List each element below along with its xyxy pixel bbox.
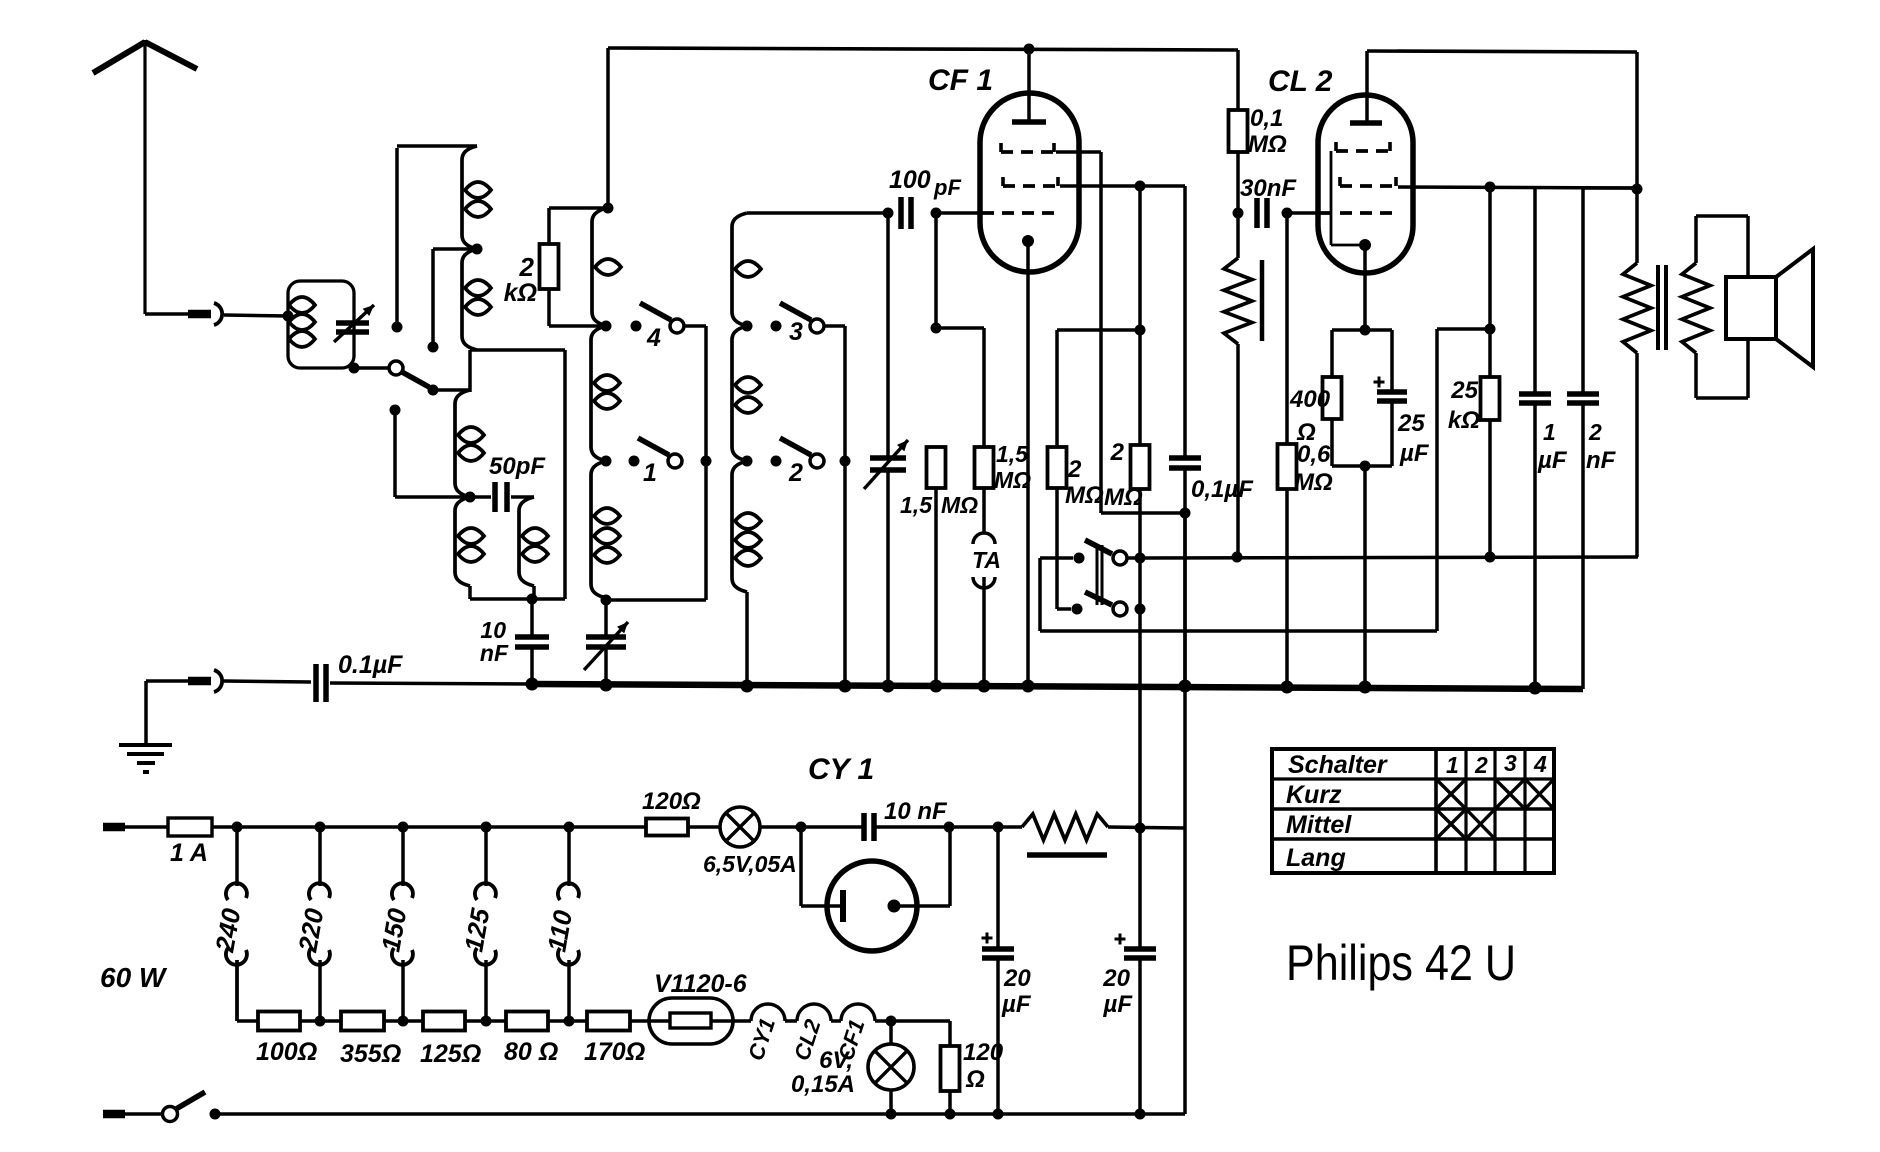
label 0.1 MOhm: [1248, 105, 1287, 158]
table header 3: [1504, 750, 1517, 776]
label CY1: [808, 753, 874, 786]
table header 1: [1446, 752, 1459, 778]
node cathode net bottom: [1360, 461, 1371, 472]
label 3: [789, 318, 803, 346]
node switch2 left: [742, 456, 753, 467]
svg-text:CY 1: CY 1: [808, 753, 874, 786]
svg-text:Mittel: Mittel: [1286, 811, 1352, 839]
RF coil L5: [519, 497, 548, 599]
jack TA lower: [973, 577, 995, 588]
variable capacitor tuning gang: [864, 440, 908, 489]
wire 2M A to DPDT: [1057, 488, 1071, 609]
resistor 170 Ohm: [587, 1012, 630, 1031]
wire 25k column top: [1488, 187, 1492, 377]
node bus 606: [600, 679, 613, 692]
capacitor 2nF: [1567, 394, 1599, 403]
capacitor 20uF no1: [982, 827, 1015, 1114]
rectifier CY1 envelope: [827, 861, 917, 951]
switch 4 contact circle: [670, 319, 684, 333]
node 608/208: [603, 203, 614, 214]
svg-text:80 Ω: 80 Ω: [504, 1038, 558, 1066]
node DPDT lower right: [1135, 604, 1146, 615]
connector ground plug: [188, 670, 222, 692]
wire CL2 g2 internal link: [1331, 151, 1359, 245]
switch S5 blade: [402, 372, 429, 387]
wire 1.5M column: [934, 213, 938, 328]
label 120 Ohm (mains): [642, 788, 701, 815]
node 20uF-1 top: [993, 822, 1004, 833]
wire secondary top: [1696, 216, 1748, 277]
svg-text:nF: nF: [480, 640, 509, 666]
svg-text:MΩ: MΩ: [1104, 484, 1143, 511]
node bus 532: [526, 678, 539, 691]
resistor 120 Ohm (mains): [646, 819, 688, 836]
svg-text:355Ω: 355Ω: [340, 1040, 401, 1068]
wire osc top: [747, 211, 888, 215]
svg-text:120: 120: [963, 1039, 1004, 1066]
node bus 1028: [1022, 680, 1035, 693]
switch 2 blade: [780, 438, 811, 455]
jack TA upper: [973, 533, 995, 544]
tube CF1 control grid: [982, 211, 1062, 215]
heater CL2 winding: [797, 1004, 831, 1021]
table header 2: [1474, 752, 1488, 778]
label 170 Ohm: [584, 1038, 645, 1066]
tube CF1 cathode: [1022, 235, 1034, 686]
capacitor 25uF plus: [1374, 377, 1385, 388]
wire gang cap to bus: [886, 469, 890, 686]
label 0.1uF (g2): [1191, 476, 1254, 503]
tube CF1 envelope: [980, 93, 1079, 272]
node tap 125: [481, 822, 492, 833]
capacitor 0.1uF (g2): [1169, 458, 1201, 468]
svg-text:3: 3: [1504, 750, 1517, 776]
wire row3: [465, 1019, 506, 1023]
wire gang cap lead: [886, 213, 890, 458]
node bus 984: [978, 680, 991, 693]
svg-text:1,5: 1,5: [996, 441, 1029, 467]
trimmer capacitor padder: [584, 622, 628, 670]
wire rect bottom: [606, 598, 706, 602]
node 1140/330: [1135, 325, 1146, 336]
label 1A: [170, 839, 208, 867]
resistor 400 Ohm: [1323, 377, 1342, 419]
node heater end: [886, 1016, 897, 1027]
node switch2 right: [840, 456, 851, 467]
svg-text:2: 2: [519, 252, 535, 282]
wire mains to fuse: [125, 825, 168, 829]
node 1237/557: [1232, 552, 1243, 563]
wire CF1 g3 lead: [1060, 186, 1185, 458]
label 50pF: [489, 453, 546, 480]
wire 2nF to bus end: [1581, 403, 1585, 689]
node tap 220: [315, 822, 326, 833]
node row 403: [398, 1016, 409, 1027]
svg-text:125Ω: 125Ω: [420, 1040, 481, 1068]
table row Kurz: [1286, 781, 1342, 809]
label 400 Ohm: [1289, 386, 1331, 446]
label 355 Ohm: [340, 1040, 401, 1068]
svg-text:1 A: 1 A: [170, 839, 208, 867]
terminal mains L: [103, 823, 125, 832]
wire cathode net top: [1332, 330, 1392, 392]
wire 0.1uF to bus: [1183, 468, 1187, 686]
resistor 0.6 MOhm: [1278, 444, 1297, 489]
label 0.6 MOhm: [1294, 441, 1333, 496]
node L3 bottom / 50pF left: [465, 492, 476, 503]
node bus 936: [930, 680, 943, 693]
wire 0.1M to 30nF node: [1236, 152, 1240, 213]
wire barretter to HT column: [1108, 827, 1185, 828]
svg-text:MΩ: MΩ: [1248, 131, 1287, 158]
label 2nF: [1586, 419, 1617, 474]
wire h2: [831, 1019, 841, 1023]
resistor 1.5 MOhm (AVC): [927, 447, 946, 488]
wire to TA jack: [982, 488, 986, 533]
contact S5 lower: [390, 405, 467, 498]
wire mains line: [212, 825, 646, 829]
svg-text:µF: µF: [1103, 991, 1134, 1018]
node antenna coil input: [283, 311, 294, 322]
node 513: [1180, 508, 1191, 519]
wire to heaters: [733, 1019, 751, 1023]
table X Kurz-1: [1436, 779, 1466, 809]
resistor 80 Ohm: [506, 1012, 548, 1031]
label 2 kOhm: [504, 252, 537, 307]
wire frame top left: [397, 144, 477, 148]
capacitor 30nF: [1257, 198, 1267, 228]
wire 1uF to bus: [1533, 403, 1537, 688]
svg-text:30nF: 30nF: [1240, 175, 1297, 202]
label 30nF: [1240, 175, 1297, 202]
connector antenna plug: [188, 303, 222, 325]
switch mains pivot: [163, 1107, 178, 1122]
barretter resistor: [1022, 814, 1108, 855]
svg-text:Ω: Ω: [965, 1066, 985, 1093]
title Philips 42 U: [1286, 935, 1516, 991]
svg-text:2: 2: [1474, 752, 1488, 778]
wire 50pF link: [470, 495, 534, 499]
wire HT column: [1183, 513, 1187, 1114]
label 10nF (rect): [884, 798, 948, 825]
rectifier CY1 anode: [888, 827, 951, 913]
resistor 2 kOhm: [540, 244, 559, 289]
oscillator coil L6: [592, 208, 621, 326]
svg-text:MΩ: MΩ: [1294, 469, 1333, 496]
resistor 125 Ohm: [423, 1012, 465, 1031]
fuse 1A: [168, 818, 212, 836]
RF coil L4: [455, 497, 484, 599]
resistor 1.5 MOhm (grid): [975, 447, 994, 488]
svg-text:0,15A: 0,15A: [791, 1071, 855, 1098]
node DPDT upper right: [1135, 553, 1146, 564]
wire antenna lead: [145, 312, 188, 316]
label 25 kOhm: [1448, 377, 1480, 434]
label 60W: [100, 962, 168, 993]
terminal mains N: [103, 1110, 125, 1119]
node 100pF right: [931, 208, 942, 219]
ground symbol: [119, 681, 172, 772]
label heater CY1: [743, 1015, 780, 1063]
node tap 150: [398, 822, 409, 833]
node tap 240: [232, 822, 243, 833]
svg-text:6,5V,05A: 6,5V,05A: [703, 851, 797, 877]
wire CF1 g2 lead: [1056, 152, 1185, 513]
label 2 (switch): [788, 459, 803, 487]
label 120 Ohm (shunt): [963, 1039, 1004, 1093]
label 0.1uF input: [338, 651, 403, 679]
capacitor 25uF: [1377, 392, 1407, 401]
svg-text:2: 2: [1067, 456, 1082, 483]
svg-text:100: 100: [889, 166, 931, 194]
switch 3 blade: [780, 303, 811, 320]
wire 1uF branch: [1533, 187, 1537, 394]
node row 569: [564, 1016, 575, 1027]
wire bottom line: [215, 1112, 1185, 1116]
svg-text:60 W: 60 W: [100, 962, 168, 993]
svg-text:TA: TA: [972, 547, 1001, 573]
switch DPDT link: [1097, 545, 1102, 605]
svg-text:4: 4: [1533, 751, 1547, 777]
node L2 tap: [472, 244, 483, 255]
svg-text:1,5: 1,5: [900, 492, 933, 518]
svg-text:0,1µF: 0,1µF: [1191, 476, 1254, 503]
label lamp 6V: [791, 1047, 855, 1098]
wire 10nF to bus: [530, 647, 534, 685]
oscillator coil L7: [591, 326, 620, 461]
svg-text:CF 1: CF 1: [928, 64, 993, 97]
wire 10nF lead: [530, 599, 534, 637]
switch 2 contact circle: [810, 454, 824, 468]
wire 2nF branch: [1583, 188, 1634, 394]
contact switch3: [771, 321, 782, 332]
wire row4: [548, 1019, 587, 1023]
wire row2: [384, 1019, 423, 1023]
label 1uF: [1537, 419, 1568, 474]
wire TA to bus: [982, 588, 986, 686]
wire top bus to 0.1M: [1236, 50, 1240, 110]
label 20uF no1: [1001, 965, 1032, 1018]
tube CL2 control grid: [1320, 211, 1398, 215]
svg-text:3: 3: [789, 318, 803, 346]
node bottom 891: [886, 1109, 897, 1120]
wire cathode net bottom: [1332, 401, 1392, 466]
node cathode net top: [1360, 325, 1371, 336]
label 100 Ohm: [256, 1038, 317, 1066]
svg-text:Ω: Ω: [1296, 419, 1316, 446]
wire 330 link: [1057, 328, 1140, 332]
label lamp 6.5V: [703, 851, 797, 877]
svg-text:MΩ: MΩ: [941, 492, 978, 518]
node row 486: [481, 1016, 492, 1027]
wire to lamp: [688, 825, 720, 829]
node bottom 998: [993, 1109, 1004, 1120]
contact switch1: [629, 456, 640, 467]
switch 1 blade: [638, 438, 669, 455]
svg-text:Lang: Lang: [1286, 844, 1346, 872]
table header Schalter: [1288, 751, 1388, 779]
wire 100pF to CF1 grid: [936, 211, 981, 215]
switch DPDT lower circle: [1113, 602, 1127, 616]
wire 25k to 557: [1488, 420, 1492, 557]
svg-text:4: 4: [646, 324, 661, 352]
wire DPDT lower bus: [1040, 329, 1490, 631]
svg-text:25: 25: [1397, 410, 1425, 437]
wire padder to bus: [604, 647, 608, 685]
node bottom 950: [945, 1109, 956, 1120]
node barretter right: [1135, 823, 1146, 834]
regulator V1120-6: [649, 998, 733, 1044]
voltage tap 125: [458, 827, 496, 1021]
resistor 0.1 MOhm: [1229, 110, 1248, 152]
wire L2 tap: [433, 249, 477, 343]
table X Mittel-1: [1436, 809, 1466, 839]
node bus 845: [839, 680, 852, 693]
switch 1 contact circle: [668, 454, 682, 468]
node 10nF top: [527, 594, 538, 605]
node 30nF right: [1282, 208, 1293, 219]
node CY1 cathode loop: [796, 822, 807, 833]
wire 936 to 984: [936, 328, 984, 447]
svg-text:Philips 42 U: Philips 42 U: [1286, 935, 1516, 991]
node bottom 1140: [1135, 1109, 1146, 1120]
svg-text:2: 2: [1588, 419, 1602, 445]
svg-text:20: 20: [1003, 965, 1031, 992]
wire lamp to 10nF: [760, 825, 864, 829]
contact DPDT lower left: [1072, 604, 1083, 615]
heater CF1 winding: [841, 1004, 875, 1021]
antenna: [93, 40, 197, 314]
switch DPDT upper blade: [1085, 540, 1112, 554]
label heater CF1: [833, 1016, 870, 1063]
label 1: [643, 459, 657, 487]
heater CY1 winding: [751, 1004, 785, 1021]
capacitor 0.1uF (input): [316, 664, 326, 702]
RF coil L2 upper half: [462, 146, 491, 249]
wire plug to 0.1uF: [224, 681, 311, 682]
svg-text:6V,: 6V,: [819, 1047, 853, 1074]
resistor 100 Ohm: [258, 1012, 300, 1031]
capacitor 10nF (rect): [864, 813, 874, 841]
capacitor 100pF: [901, 197, 911, 229]
svg-text:V1120-6: V1120-6: [654, 970, 748, 998]
node switch1 left: [601, 456, 612, 467]
label TA: [972, 547, 1001, 573]
resistor 2 MOhm A: [1048, 447, 1067, 488]
voltage tap 150: [375, 827, 413, 1021]
RF coil L2 lower half: [462, 249, 491, 350]
wire 30nF to CL2 grid: [1287, 211, 1320, 215]
wire heater to 120R: [875, 1021, 950, 1046]
node CY1 anode loop: [944, 822, 955, 833]
wire h1: [785, 1019, 797, 1023]
label 20uF no2: [1102, 965, 1133, 1018]
svg-text:kΩ: kΩ: [1448, 407, 1480, 434]
label 80 Ohm: [504, 1038, 558, 1066]
node 1uF bus: [1529, 682, 1542, 695]
node row 320: [315, 1016, 326, 1027]
svg-text:MΩ: MΩ: [1065, 482, 1104, 509]
wire 120R to bottom: [948, 1091, 952, 1114]
RF coil L3: [455, 390, 484, 497]
svg-text:2: 2: [788, 459, 803, 487]
wire switch3 right: [824, 326, 845, 462]
label 2 MOhm A: [1065, 456, 1104, 509]
node transformer top: [1632, 184, 1643, 195]
trimmer capacitor C-ant: [334, 305, 374, 342]
capacitor 50pF: [495, 482, 507, 512]
wire cathode to bus: [1363, 466, 1367, 687]
svg-text:1: 1: [643, 459, 657, 487]
wire plug to L1: [224, 315, 288, 316]
capacitor 1uF: [1519, 394, 1551, 403]
node bus 1365: [1359, 681, 1372, 694]
svg-text:100Ω: 100Ω: [256, 1038, 317, 1066]
svg-text:10 nF: 10 nF: [884, 798, 948, 825]
wire to mains switch: [125, 1112, 163, 1116]
node switch4 left: [601, 321, 612, 332]
voltage tap 110: [541, 827, 579, 1021]
resistor 355 Ohm: [341, 1012, 384, 1031]
tube CL2 screen grid: [1336, 142, 1392, 151]
wire padder lead: [604, 600, 608, 637]
wire row1: [300, 1019, 341, 1023]
wire top bus left: [608, 48, 1238, 50]
wire DPDT to barretter column: [1138, 558, 1142, 828]
rectifier CY1 cathode: [801, 827, 843, 922]
wire 2M column A: [1055, 330, 1059, 447]
svg-text:400: 400: [1289, 386, 1331, 413]
resistor 120 Ohm (shunt): [941, 1046, 960, 1091]
label CL2: [1268, 65, 1333, 98]
contact switch2: [771, 456, 782, 467]
wire L1 to wave switch: [359, 366, 390, 370]
wire 0.6M column: [1285, 213, 1289, 444]
label 1.5 MOhm (AVC): [900, 492, 978, 518]
svg-text:120Ω: 120Ω: [642, 788, 701, 815]
svg-text:µF: µF: [1399, 440, 1430, 467]
oscillator coil L8: [591, 461, 620, 600]
label 100pF: [889, 166, 961, 200]
switch mains blade: [176, 1092, 205, 1109]
wire CL2 g3 lead: [1398, 187, 1634, 188]
wire row5: [630, 1019, 651, 1023]
table header 4: [1533, 751, 1547, 777]
svg-text:20: 20: [1102, 965, 1130, 992]
tube CL2 envelope: [1318, 95, 1413, 273]
tube CL2 cathode: [1359, 239, 1371, 330]
wire ground input: [146, 679, 188, 683]
svg-text:25: 25: [1450, 377, 1478, 404]
node CF1 anode junction: [1024, 44, 1035, 55]
wire L11 to bus: [745, 592, 749, 686]
node mains switch: [210, 1109, 221, 1120]
label 4: [646, 324, 661, 352]
svg-text:0.1µF: 0.1µF: [338, 651, 403, 679]
node bus 888: [882, 680, 895, 693]
node 936/328: [931, 323, 942, 334]
wire taps to resistor row: [237, 960, 258, 1021]
svg-text:0,1: 0,1: [1250, 105, 1283, 132]
contact switch4: [631, 321, 642, 332]
switch DPDT upper circle: [1113, 551, 1127, 565]
node g3/1140: [1135, 181, 1146, 192]
node 1490/557: [1485, 552, 1496, 563]
label 125 Ohm: [420, 1040, 481, 1068]
speaker: [1726, 249, 1813, 367]
node bus 1287: [1281, 681, 1294, 694]
wire coil bottoms: [470, 597, 565, 601]
